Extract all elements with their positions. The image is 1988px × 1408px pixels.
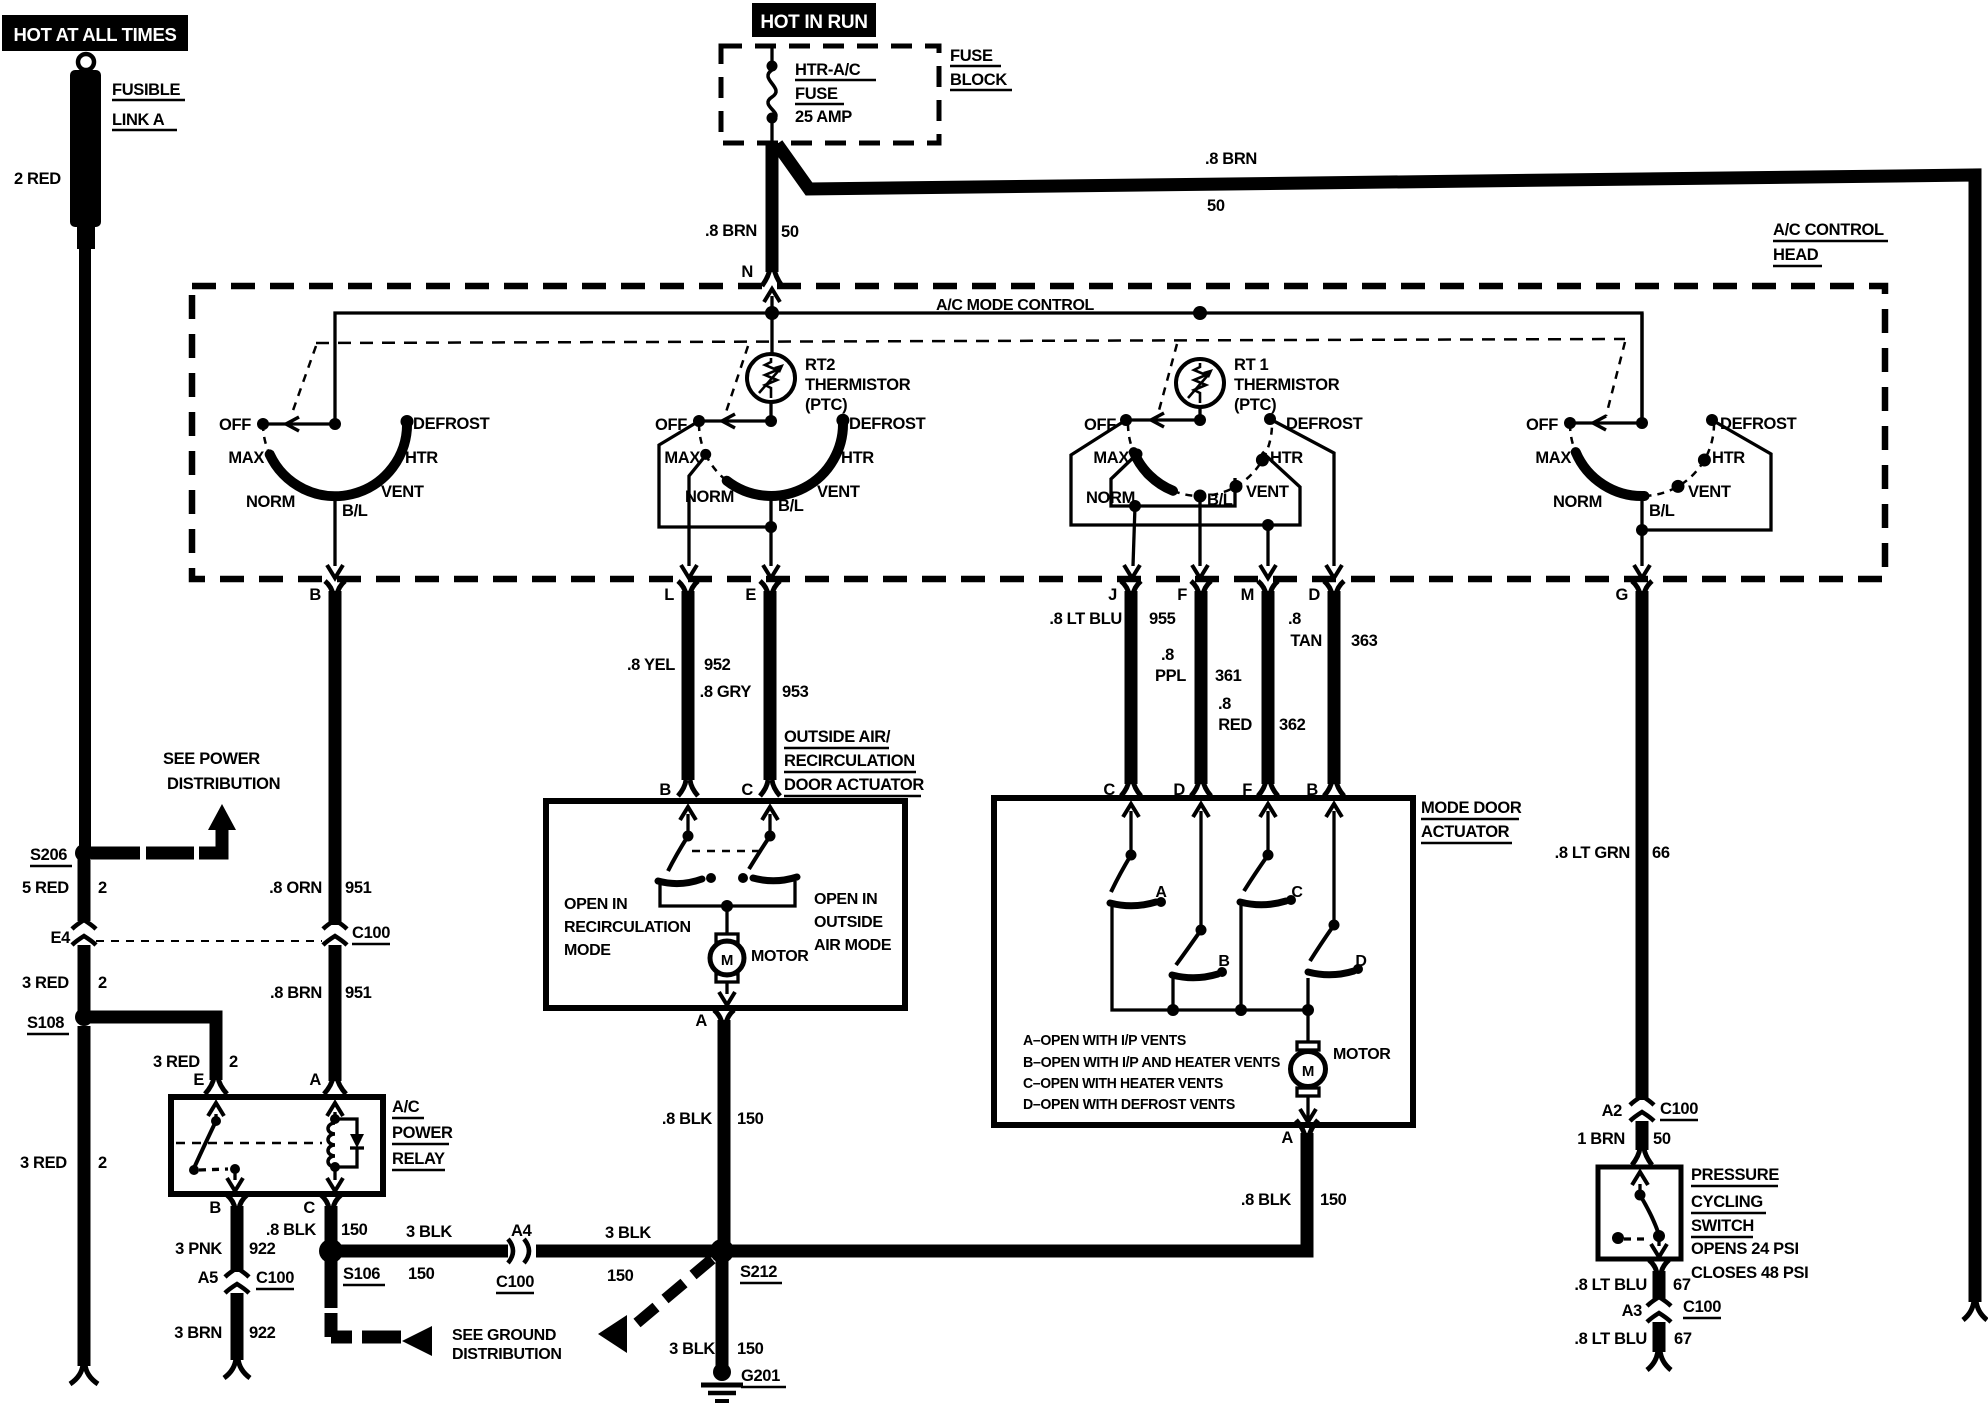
- svg-text:.8 ORN: .8 ORN: [269, 879, 322, 897]
- svg-text:DEFROST: DEFROST: [1286, 415, 1363, 433]
- svg-text:RELAY: RELAY: [392, 1150, 445, 1168]
- SW3 J drop: [1124, 506, 1140, 578]
- label .8 BLK 150 (relay C): [266, 1221, 368, 1239]
- wire solid feed bus: [335, 313, 1642, 424]
- svg-text:A: A: [1155, 884, 1167, 901]
- label RT1 THERMISTOR (PTC): [1234, 356, 1340, 414]
- wire RT2 to SW2 pivot: [769, 402, 772, 419]
- svg-text:RT 1: RT 1: [1234, 356, 1269, 374]
- label OUTSIDE AIR/RECIRCULATION DOOR ACTUATOR: [784, 728, 924, 796]
- connector M control head: [1241, 581, 1278, 604]
- SW3 position labels: [1084, 415, 1363, 509]
- connector L control head: [664, 581, 698, 604]
- label SEE POWER DISTRIBUTION: [163, 750, 280, 793]
- SW3 MAX dot: [1132, 449, 1143, 460]
- svg-text:150: 150: [408, 1265, 435, 1283]
- svg-text:OFF: OFF: [1526, 416, 1558, 434]
- wire .8 ORN 951 / .8 BRN 951 (B to relay A): [323, 591, 347, 1081]
- svg-text:S212: S212: [740, 1263, 777, 1281]
- wire 3 BRN 922: [231, 1293, 244, 1360]
- svg-text:A4: A4: [511, 1222, 533, 1240]
- svg-text:A–OPEN WITH I/P VENTS: A–OPEN WITH I/P VENTS: [1023, 1032, 1186, 1049]
- label 3 RED 2 lower: [20, 1154, 107, 1172]
- label .8 LT BLU 67 (lower): [1574, 1330, 1691, 1348]
- svg-text:3 RED: 3 RED: [22, 974, 69, 992]
- rotary switch SW4 dial arc: [1570, 420, 1714, 496]
- connector G control head: [1616, 581, 1652, 604]
- svg-text:5 RED: 5 RED: [22, 879, 69, 897]
- SW3 dashed actuator slant: [1158, 344, 1177, 414]
- node S206: [30, 844, 93, 866]
- label C100 on B wire: [352, 924, 390, 944]
- label HOT AT ALL TIMES: [2, 15, 188, 51]
- connector A actuator output: [695, 1010, 734, 1030]
- svg-text:SEE GROUND: SEE GROUND: [452, 1327, 556, 1344]
- svg-text:RECIRCULATION: RECIRCULATION: [784, 752, 915, 770]
- label PRESSURE CYCLING SWITCH: [1691, 1166, 1779, 1237]
- svg-text:3 RED: 3 RED: [153, 1053, 200, 1071]
- wire 3 RED lower vertical: [78, 1026, 91, 1366]
- wire .8 LT BLU 67 (lower): [1653, 1322, 1666, 1352]
- svg-text:M: M: [1241, 586, 1254, 604]
- connector D mode door input: [1173, 780, 1211, 817]
- SW1 position labels: [219, 415, 490, 520]
- label .8 BRN 50 (N wire): [705, 222, 799, 241]
- svg-text:3 BLK: 3 BLK: [669, 1340, 715, 1358]
- wire 5 RED vertical: [78, 858, 91, 921]
- svg-text:3 RED: 3 RED: [20, 1154, 67, 1172]
- label .8 LT GRN 66: [1555, 844, 1670, 862]
- svg-text:OUTSIDE AIR/: OUTSIDE AIR/: [784, 728, 891, 746]
- mode door actuator box: [994, 798, 1413, 1125]
- svg-text:OPENS 24 PSI: OPENS 24 PSI: [1691, 1240, 1799, 1258]
- svg-text:THERMISTOR: THERMISTOR: [805, 376, 911, 394]
- svg-text:3 PNK: 3 PNK: [175, 1240, 222, 1258]
- svg-text:.8 LT BLU: .8 LT BLU: [1049, 610, 1122, 628]
- svg-text:HOT IN RUN: HOT IN RUN: [760, 12, 867, 33]
- dashed link E4-C100: [96, 940, 322, 942]
- svg-text:2: 2: [98, 879, 107, 897]
- wire to power distribution (dashed): [91, 829, 222, 853]
- wire 1 BRN 50: [1636, 1121, 1649, 1150]
- svg-text:362: 362: [1279, 716, 1306, 734]
- rotary switch SW4 wiper: [1564, 416, 1648, 430]
- svg-text:A/C CONTROL: A/C CONTROL: [1773, 221, 1884, 239]
- connector F control head: [1177, 581, 1211, 604]
- wire S108 to relay E: [90, 1017, 216, 1080]
- svg-text:OFF: OFF: [219, 416, 251, 434]
- svg-text:RECIRCULATION: RECIRCULATION: [564, 919, 691, 936]
- svg-text:A: A: [695, 1012, 707, 1030]
- label OPEN IN OUTSIDE AIR MODE: [814, 891, 892, 954]
- svg-text:.8: .8: [1161, 646, 1174, 664]
- svg-text:CYCLING: CYCLING: [1691, 1193, 1763, 1211]
- svg-text:DISTRIBUTION: DISTRIBUTION: [167, 775, 280, 793]
- label .8 PPL 361: [1155, 646, 1242, 685]
- svg-text:HTR: HTR: [841, 449, 874, 467]
- SW4 B/L to G drop: [1634, 496, 1650, 578]
- svg-text:HTR: HTR: [1712, 449, 1745, 467]
- svg-text:THERMISTOR: THERMISTOR: [1234, 376, 1340, 394]
- wire .8 LT GRN 66 (G): [1636, 591, 1649, 1100]
- junction dot bus at N: [765, 306, 779, 320]
- node S108: [27, 1008, 93, 1034]
- wire .8 PPL 361 (F): [1195, 591, 1208, 784]
- connector B actuator input: [659, 780, 698, 820]
- mode door legend: [1023, 1032, 1280, 1113]
- svg-text:DOOR ACTUATOR: DOOR ACTUATOR: [784, 776, 924, 794]
- label MOTOR (mode door): [1333, 1046, 1391, 1063]
- svg-text:N: N: [741, 263, 753, 281]
- connector B mode door input: [1306, 780, 1344, 817]
- svg-text:1 BRN: 1 BRN: [1577, 1130, 1625, 1148]
- svg-text:951: 951: [345, 879, 372, 897]
- svg-text:G201: G201: [741, 1367, 780, 1385]
- SW2 OFF polygon to E: [659, 421, 777, 533]
- wire .8 BLK 150 (mode door A to S212 run): [728, 1133, 1307, 1251]
- arrow SEE POWER DISTRIBUTION: [208, 804, 236, 830]
- label 3 BLK 150 (left): [406, 1223, 452, 1283]
- label SEE GROUND DISTRIBUTION: [452, 1327, 562, 1363]
- mode door switch C: [1240, 811, 1303, 905]
- svg-text:L: L: [664, 586, 674, 604]
- relay coil output: [327, 1167, 343, 1191]
- connector E relay input: [193, 1071, 227, 1116]
- wire 3 BLK 150 (A4 to S212): [536, 1245, 716, 1258]
- svg-text:BLOCK: BLOCK: [950, 71, 1007, 89]
- wire .8 BLK 150 (actuator A to S212): [718, 1020, 731, 1245]
- svg-text:.8 BLK: .8 BLK: [266, 1221, 317, 1239]
- pressure switch internals: [1612, 1172, 1667, 1257]
- svg-text:S106: S106: [343, 1265, 380, 1283]
- svg-text:2: 2: [229, 1053, 238, 1071]
- svg-text:B: B: [1218, 953, 1229, 970]
- fusible link A body: [70, 70, 101, 249]
- label FUSIBLE LINK A: [112, 81, 185, 130]
- SW1 dashed actuator slant: [291, 346, 316, 416]
- label .8 LT BLU 955: [1049, 610, 1175, 628]
- wire end chevron bottom left: [70, 1364, 98, 1384]
- rotary switch SW2 dial arc: [699, 414, 849, 496]
- fusible link A terminal ring: [78, 54, 94, 70]
- svg-text:25 AMP: 25 AMP: [795, 108, 852, 126]
- svg-text:A/C: A/C: [392, 1098, 420, 1116]
- svg-text:MODE DOOR: MODE DOOR: [1421, 799, 1522, 817]
- rotary switch SW3 wiper: [1120, 413, 1206, 427]
- outside air/recirculation door actuator box: [546, 801, 905, 1008]
- label HOT IN RUN: [752, 3, 876, 37]
- SW3 DEFROST dot: [1264, 413, 1276, 425]
- connector C actuator input: [741, 780, 780, 820]
- mode door switch D: [1308, 811, 1367, 975]
- svg-text:C: C: [741, 781, 753, 799]
- svg-text:952: 952: [704, 656, 731, 674]
- wire N drop to RT2: [770, 313, 773, 355]
- actuator right switch: [738, 814, 797, 883]
- A/C power relay box: [171, 1097, 383, 1194]
- svg-text:OPEN IN: OPEN IN: [564, 896, 627, 913]
- svg-text:D: D: [1173, 781, 1185, 799]
- svg-text:953: 953: [782, 683, 809, 701]
- svg-text:NORM: NORM: [1553, 493, 1602, 511]
- actuator left switch: [658, 814, 716, 884]
- label C100 under A4: [0, 0, 1, 1]
- svg-text:150: 150: [1320, 1191, 1347, 1209]
- svg-text:HOT AT ALL TIMES: HOT AT ALL TIMES: [14, 24, 177, 45]
- svg-text:ACTUATOR: ACTUATOR: [1421, 823, 1510, 841]
- relay switch contact: [199, 1164, 243, 1191]
- svg-text:FUSE: FUSE: [950, 47, 993, 65]
- connector A relay input: [309, 1071, 346, 1116]
- svg-text:922: 922: [249, 1240, 276, 1258]
- svg-text:VENT: VENT: [1688, 483, 1731, 501]
- actuator motor M: [710, 906, 744, 1005]
- svg-text:D–OPEN WITH DEFROST VENTS: D–OPEN WITH DEFROST VENTS: [1023, 1096, 1235, 1113]
- svg-text:.8 YEL: .8 YEL: [627, 656, 675, 674]
- rotary switch SW3 dial arc: [1128, 420, 1272, 502]
- node S212: [710, 1239, 782, 1283]
- node S106: [319, 1239, 385, 1285]
- SW2 MAX to L drop: [681, 455, 706, 578]
- svg-text:C100: C100: [1683, 1298, 1721, 1316]
- svg-text:HTR-A/C: HTR-A/C: [795, 61, 861, 79]
- connector C relay output: [303, 1195, 341, 1217]
- SW2 position labels: [655, 415, 926, 515]
- actuator contact wiring: [660, 881, 795, 912]
- fuse HTR-A/C 25 AMP: [767, 46, 778, 141]
- svg-text:DISTRIBUTION: DISTRIBUTION: [452, 1346, 562, 1363]
- wire .8 GRY 953 (E): [764, 591, 777, 780]
- label .8 TAN 363: [1288, 610, 1378, 650]
- label 3 BRN 922: [174, 1324, 275, 1342]
- ground G201: [701, 1363, 786, 1401]
- label A/C CONTROL HEAD: [1773, 221, 1888, 266]
- SW4 DEFROST polygon to G: [1636, 420, 1771, 536]
- connector pressure switch input: [1632, 1148, 1652, 1165]
- label 5 RED 2: [22, 879, 107, 897]
- SW4 position labels: [1526, 415, 1797, 520]
- connector pressure switch output: [1649, 1260, 1669, 1274]
- svg-text:150: 150: [341, 1221, 368, 1239]
- svg-text:(PTC): (PTC): [805, 396, 847, 414]
- connector C mode door input: [1103, 780, 1141, 817]
- SW2 output B/L to E: [763, 496, 779, 578]
- wire .8 YEL 952 (L): [682, 591, 695, 780]
- svg-text:C: C: [1103, 781, 1115, 799]
- A/C control head dashed box: [192, 286, 1885, 579]
- svg-text:G: G: [1616, 586, 1628, 604]
- label OPENS 24 PSI / CLOSES 48 PSI: [1691, 1240, 1808, 1282]
- actuator dashed link: [692, 850, 760, 853]
- svg-text:67: 67: [1673, 1276, 1691, 1294]
- wire RT1 to SW3 pivot: [1198, 407, 1201, 419]
- svg-text:C–OPEN WITH HEATER VENTS: C–OPEN WITH HEATER VENTS: [1023, 1075, 1223, 1092]
- svg-text:B: B: [309, 586, 321, 604]
- svg-text:C: C: [1291, 884, 1303, 901]
- relay switch blade: [189, 1114, 221, 1175]
- svg-text:F: F: [1242, 781, 1252, 799]
- svg-text:A: A: [1281, 1129, 1293, 1147]
- wire S212 ground dashed diagonal: [637, 1259, 712, 1323]
- svg-text:DEFROST: DEFROST: [849, 415, 926, 433]
- svg-text:B: B: [209, 1199, 221, 1217]
- svg-text:MAX: MAX: [664, 449, 700, 467]
- svg-text:A: A: [309, 1071, 321, 1089]
- label A/C MODE CONTROL: [936, 297, 1095, 314]
- svg-text:D: D: [1355, 953, 1366, 970]
- fuse block dashed box: [721, 46, 939, 143]
- wire S106 ground dashed: [331, 1258, 401, 1337]
- svg-text:.8 BRN: .8 BRN: [705, 222, 757, 240]
- svg-text:E: E: [193, 1071, 204, 1089]
- svg-text:3 BLK: 3 BLK: [406, 1223, 452, 1241]
- svg-text:FUSIBLE: FUSIBLE: [112, 81, 180, 99]
- label 3 PNK 922: [175, 1240, 276, 1258]
- label .8 RED 362: [1218, 695, 1306, 734]
- svg-text:50: 50: [1653, 1130, 1671, 1148]
- label .8 LT BLU 67 (upper): [1574, 1276, 1690, 1294]
- wire end chevron (3 BRN): [224, 1358, 250, 1378]
- svg-text:MOTOR: MOTOR: [1333, 1046, 1391, 1063]
- label 3 BLK 150 (ground): [669, 1340, 764, 1358]
- connector N into control head: [741, 263, 782, 313]
- svg-text:E4: E4: [51, 929, 72, 947]
- svg-text:SWITCH: SWITCH: [1691, 1217, 1754, 1235]
- connector B relay output: [209, 1195, 247, 1217]
- wire .8 LT BLU 67 (upper): [1653, 1271, 1666, 1299]
- label A/C POWER RELAY: [392, 1098, 453, 1170]
- mode door contact bus: [1112, 905, 1314, 1016]
- svg-text:HTR: HTR: [405, 449, 438, 467]
- wire .8 TAN 363 (D): [1328, 591, 1341, 784]
- svg-text:RED: RED: [1218, 716, 1252, 734]
- wire .8 BRN 50 to N: [766, 143, 779, 272]
- svg-text:.8 BLK: .8 BLK: [1241, 1191, 1292, 1209]
- connector B control head: [309, 581, 345, 604]
- svg-text:.8 BLK: .8 BLK: [662, 1110, 713, 1128]
- wire .8 BLK 150 (C relay to S106): [325, 1206, 338, 1244]
- connector A2 C100: [1602, 1096, 1699, 1121]
- svg-text:MAX: MAX: [228, 449, 264, 467]
- connector A mode door output: [1281, 1120, 1318, 1147]
- connector A5 C100: [198, 1268, 295, 1293]
- SW1 output B/L to B: [327, 496, 343, 578]
- svg-text:S206: S206: [30, 846, 67, 864]
- mode door motor M: [1291, 1010, 1326, 1122]
- label HTR-A/C FUSE 25 AMP: [795, 61, 876, 126]
- relay mechanical dashed link: [176, 1142, 322, 1145]
- svg-text:A3: A3: [1622, 1302, 1643, 1320]
- svg-text:C: C: [303, 1199, 315, 1217]
- svg-text:PPL: PPL: [1155, 667, 1186, 685]
- svg-text:AIR MODE: AIR MODE: [814, 937, 892, 954]
- svg-text:C100: C100: [256, 1269, 294, 1287]
- connector A3 C100: [1622, 1297, 1722, 1322]
- connector F mode door input: [1242, 780, 1278, 817]
- label OPEN IN RECIRCULATION MODE: [564, 896, 691, 959]
- SW3 M drop: [1260, 525, 1276, 578]
- svg-text:.8: .8: [1218, 695, 1231, 713]
- RT2 thermistor: [747, 354, 795, 402]
- svg-text:2: 2: [98, 974, 107, 992]
- svg-text:67: 67: [1674, 1330, 1692, 1348]
- label 3 BLK 150 (right): [605, 1224, 651, 1285]
- svg-text:A5: A5: [198, 1269, 219, 1287]
- svg-text:F: F: [1177, 586, 1187, 604]
- RT1 thermistor: [1176, 359, 1224, 407]
- connector J control head: [1108, 581, 1141, 604]
- label .8 GRY 953: [700, 683, 809, 701]
- wire bus drop to SW4: [1640, 313, 1643, 421]
- mode door switch B: [1172, 811, 1230, 978]
- svg-text:B–OPEN WITH I/P AND HEATER VEN: B–OPEN WITH I/P AND HEATER VENTS: [1023, 1054, 1280, 1071]
- arrow see ground distribution (S212): [598, 1315, 627, 1353]
- SW4 DEFROST dot: [1706, 414, 1718, 426]
- svg-text:MOTOR: MOTOR: [751, 948, 809, 965]
- svg-text:.8 BRN: .8 BRN: [270, 984, 322, 1002]
- label 3 RED 2 relay feed: [153, 1053, 238, 1071]
- label MODE DOOR ACTUATOR: [1421, 799, 1522, 843]
- svg-text:.8 BRN: .8 BRN: [1205, 150, 1257, 168]
- wire .8 RED 362 (M): [1262, 591, 1275, 784]
- svg-text:RT2: RT2: [805, 356, 835, 374]
- rotary switch SW2 wiper: [693, 414, 777, 428]
- svg-text:M: M: [1302, 1063, 1314, 1080]
- junction dot bus at RT1: [1193, 306, 1207, 320]
- svg-text:FUSE: FUSE: [795, 85, 838, 103]
- svg-text:2: 2: [98, 1154, 107, 1172]
- connector D control head: [1308, 581, 1344, 604]
- svg-text:NORM: NORM: [685, 488, 734, 506]
- dashed feed bus: [316, 339, 1625, 343]
- label 1 BRN 50: [1577, 1130, 1671, 1148]
- svg-text:3 BLK: 3 BLK: [605, 1224, 651, 1242]
- svg-text:C100: C100: [496, 1273, 534, 1291]
- label MOTOR (actuator): [751, 948, 809, 965]
- pressure cycling switch box: [1598, 1167, 1681, 1259]
- svg-text:MODE: MODE: [564, 942, 611, 959]
- svg-text:150: 150: [737, 1110, 764, 1128]
- connector E4: [51, 920, 96, 947]
- svg-text:C100: C100: [1660, 1100, 1698, 1118]
- label RT2 THERMISTOR (PTC): [805, 356, 911, 414]
- wire end chevron (pressure switch): [1647, 1350, 1671, 1370]
- svg-text:922: 922: [249, 1324, 276, 1342]
- svg-text:B: B: [1306, 781, 1318, 799]
- svg-text:(PTC): (PTC): [1234, 396, 1276, 414]
- svg-text:NORM: NORM: [246, 493, 295, 511]
- svg-text:OPEN IN: OPEN IN: [814, 891, 877, 908]
- svg-text:VENT: VENT: [1246, 483, 1289, 501]
- svg-text:C100: C100: [352, 924, 390, 942]
- svg-text:POWER: POWER: [392, 1124, 453, 1142]
- SW2 dashed actuator slant: [725, 346, 748, 415]
- connector E control head: [745, 581, 780, 604]
- wire 3 RED vertical: [78, 945, 91, 1017]
- label FUSE BLOCK: [950, 47, 1012, 90]
- svg-text:OFF: OFF: [1084, 416, 1116, 434]
- relay clamping diode: [335, 1119, 364, 1167]
- label .8 ORN 951: [269, 879, 372, 897]
- wire .8 LT BLU 955 (J): [1125, 591, 1138, 784]
- svg-text:B: B: [659, 781, 671, 799]
- label 2 RED: [14, 170, 61, 188]
- svg-text:MAX: MAX: [1535, 449, 1571, 467]
- label 3 RED 2: [22, 974, 107, 992]
- svg-text:LINK A: LINK A: [112, 111, 165, 129]
- svg-text:DEFROST: DEFROST: [413, 415, 490, 433]
- svg-text:.8 LT GRN: .8 LT GRN: [1555, 844, 1630, 862]
